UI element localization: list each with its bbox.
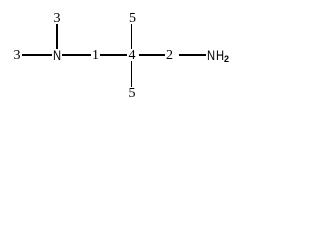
atom label 5 (bottom substituent on 4) (129, 89, 136, 99)
bond top 5 to 4 (vertical) (131, 24, 133, 49)
atom label 4 (quaternary carbon) (129, 51, 136, 61)
bond N to 1 (62, 54, 91, 56)
atom label 1 (92, 51, 99, 61)
bond 2 to NH2 (179, 54, 207, 56)
bond 4 to bottom 5 (vertical) (131, 61, 133, 88)
subscript 2 of NH2 (224, 56, 229, 63)
atom label 3 (top substituent on N) (54, 14, 61, 24)
bond 1 to 4 (100, 54, 127, 56)
atom label 2 (166, 51, 173, 61)
amine hydrogen H of NH2 (216, 50, 224, 60)
chemical structure diagram: (3)N(3)-1-4(5)(5)-2-NH2 (0, 0, 256, 109)
amine nitrogen N of NH2 (207, 50, 215, 60)
atom N (chain nitrogen) (53, 50, 61, 60)
atom label 3 (left substituent on N) (14, 51, 21, 61)
atom label 5 (top substituent on 4) (129, 14, 136, 24)
bond top 3 to N (vertical) (56, 24, 58, 49)
bond 3 to N (22, 54, 52, 56)
bond 4 to 2 (139, 54, 165, 56)
